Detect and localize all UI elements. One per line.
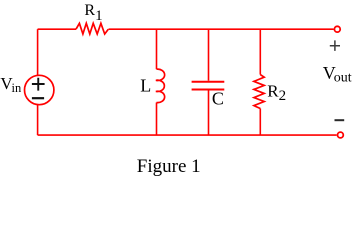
capacitor C bottom plate [192, 89, 225, 91]
output minus sign [335, 119, 345, 121]
wire left vertical below source [37, 105, 39, 136]
svg-text:R1: R1 [84, 2, 102, 24]
svg-text:L: L [140, 76, 151, 96]
svg-text:R2: R2 [267, 82, 286, 105]
svg-text:Vin: Vin [0, 74, 22, 95]
source minus sign [32, 97, 44, 99]
wire capacitor branch upper [208, 29, 210, 80]
wire top horizontal from R1 to top-right terminal [109, 28, 334, 30]
capacitor C top plate [192, 81, 225, 83]
wire left vertical above source [37, 29, 39, 75]
resistor R2 [254, 75, 264, 109]
wire inductor branch upper [156, 29, 158, 69]
resistor R1 [76, 23, 108, 34]
output terminal bottom [338, 132, 344, 138]
wire capacitor branch lower [208, 91, 210, 136]
inductor L [156, 69, 165, 102]
svg-text:Vout: Vout [323, 63, 352, 86]
wire R2 branch lower [259, 109, 261, 136]
wire bottom horizontal [38, 134, 337, 136]
svg-text:C: C [212, 89, 224, 109]
output plus sign [330, 40, 340, 51]
wire top-left horizontal segment [38, 28, 76, 30]
output terminal top [334, 26, 340, 32]
svg-text:Figure 1: Figure 1 [137, 156, 201, 177]
source plus sign [32, 78, 45, 91]
wire R2 branch upper [259, 29, 261, 74]
voltage source Vin [25, 75, 54, 104]
wire inductor branch lower [156, 103, 158, 136]
